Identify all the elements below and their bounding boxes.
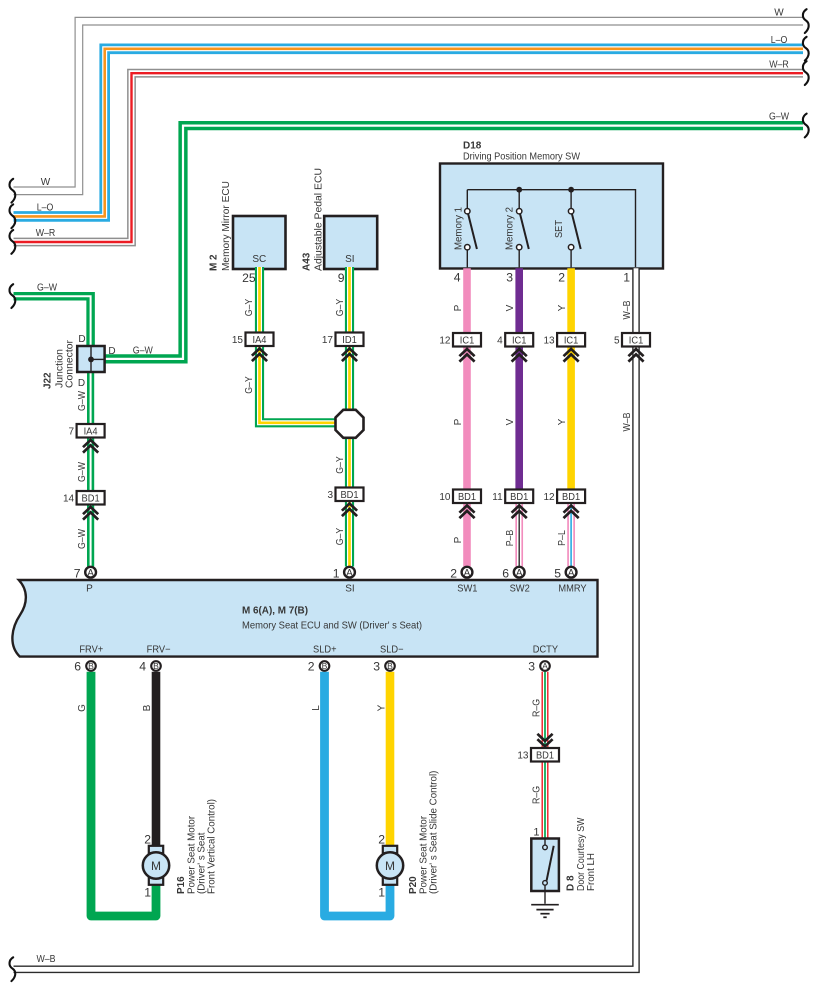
svg-text:2: 2 xyxy=(558,271,565,285)
svg-text:B: B xyxy=(88,661,94,671)
svg-text:14: 14 xyxy=(63,493,75,504)
svg-text:4: 4 xyxy=(454,271,461,285)
svg-text:FRV+: FRV+ xyxy=(79,645,103,656)
svg-text:G–Y: G–Y xyxy=(335,527,346,545)
svg-text:BD1: BD1 xyxy=(82,493,101,504)
svg-text:9: 9 xyxy=(338,271,345,285)
svg-text:2: 2 xyxy=(308,660,315,674)
svg-text:L–O: L–O xyxy=(37,203,54,214)
svg-text:ID1: ID1 xyxy=(342,335,357,346)
svg-text:BD1: BD1 xyxy=(510,492,529,503)
svg-text:M 2: M 2 xyxy=(208,254,220,271)
svg-text:2: 2 xyxy=(450,566,457,580)
svg-text:10: 10 xyxy=(439,492,451,503)
svg-text:25: 25 xyxy=(242,271,256,285)
svg-text:P: P xyxy=(453,304,464,311)
svg-text:1: 1 xyxy=(533,827,539,839)
svg-text:DCTY: DCTY xyxy=(533,645,559,656)
svg-text:A43: A43 xyxy=(301,253,313,271)
svg-text:G–W: G–W xyxy=(37,282,57,293)
svg-text:1: 1 xyxy=(333,566,340,580)
svg-text:J22: J22 xyxy=(41,372,53,389)
svg-text:MMRY: MMRY xyxy=(558,584,587,595)
svg-text:P: P xyxy=(453,418,464,425)
svg-text:BD1: BD1 xyxy=(458,492,477,503)
svg-text:Memory 2: Memory 2 xyxy=(505,207,516,250)
svg-text:Front LH: Front LH xyxy=(585,853,597,891)
svg-text:M 6(A), M 7(B): M 6(A), M 7(B) xyxy=(242,605,308,617)
svg-text:Driving Position Memory SW: Driving Position Memory SW xyxy=(463,151,580,163)
svg-text:IA4: IA4 xyxy=(253,335,267,346)
svg-text:5: 5 xyxy=(614,335,620,346)
svg-text:A: A xyxy=(568,568,575,579)
svg-text:IC1: IC1 xyxy=(512,335,527,346)
svg-text:V: V xyxy=(505,418,516,425)
svg-text:P–L: P–L xyxy=(557,530,568,546)
svg-text:G–Y: G–Y xyxy=(335,298,346,316)
svg-text:15: 15 xyxy=(232,335,244,346)
svg-text:SLD+: SLD+ xyxy=(313,645,337,656)
svg-text:G–Y: G–Y xyxy=(244,298,255,316)
svg-text:A: A xyxy=(516,568,523,579)
svg-text:SC: SC xyxy=(252,254,266,265)
svg-text:Y: Y xyxy=(376,704,387,711)
svg-text:D: D xyxy=(78,334,85,345)
svg-text:W–R: W–R xyxy=(769,59,789,70)
svg-text:Y: Y xyxy=(557,304,568,311)
svg-text:3: 3 xyxy=(373,660,380,674)
svg-text:W–B: W–B xyxy=(622,300,633,319)
svg-text:BD1: BD1 xyxy=(562,492,581,503)
svg-text:W–B: W–B xyxy=(622,412,633,431)
svg-text:A: A xyxy=(346,568,353,579)
svg-text:P: P xyxy=(86,584,93,595)
svg-text:7: 7 xyxy=(74,566,81,580)
svg-text:Connector: Connector xyxy=(64,340,76,388)
svg-text:W: W xyxy=(774,7,784,18)
svg-text:R–G: R–G xyxy=(532,699,543,717)
svg-text:IC1: IC1 xyxy=(564,335,579,346)
svg-text:4: 4 xyxy=(497,335,503,346)
svg-text:Memory Seat ECU and SW (Driver: Memory Seat ECU and SW (Driver' s Seat) xyxy=(242,620,422,632)
svg-text:3: 3 xyxy=(327,490,333,501)
svg-text:Front Vertical Control): Front Vertical Control) xyxy=(206,799,218,894)
svg-text:3: 3 xyxy=(528,660,535,674)
svg-text:FRV−: FRV− xyxy=(147,645,171,656)
svg-text:IC1: IC1 xyxy=(460,335,475,346)
svg-text:G–Y: G–Y xyxy=(335,456,346,474)
svg-text:2: 2 xyxy=(144,832,151,846)
svg-text:BD1: BD1 xyxy=(340,490,359,501)
svg-text:1: 1 xyxy=(623,271,630,285)
svg-text:D: D xyxy=(108,346,115,357)
svg-text:B: B xyxy=(153,661,159,671)
svg-text:1: 1 xyxy=(144,885,151,899)
svg-text:W–R: W–R xyxy=(36,228,56,239)
svg-text:G–W: G–W xyxy=(77,391,88,411)
svg-text:M: M xyxy=(151,859,161,873)
svg-text:SLD−: SLD− xyxy=(380,645,404,656)
svg-text:SW1: SW1 xyxy=(457,584,478,595)
svg-text:Memory 1: Memory 1 xyxy=(454,207,465,250)
svg-text:5: 5 xyxy=(554,566,561,580)
svg-text:Memory Mirror ECU: Memory Mirror ECU xyxy=(220,181,232,271)
svg-text:3: 3 xyxy=(506,271,513,285)
svg-text:13: 13 xyxy=(543,335,555,346)
svg-text:B: B xyxy=(387,661,393,671)
svg-text:L–O: L–O xyxy=(771,35,788,46)
svg-text:R–G: R–G xyxy=(532,786,543,804)
svg-text:1: 1 xyxy=(378,885,385,899)
svg-text:12: 12 xyxy=(543,492,555,503)
svg-text:L: L xyxy=(311,705,322,711)
svg-text:SW2: SW2 xyxy=(510,584,531,595)
svg-text:V: V xyxy=(505,304,516,311)
svg-text:D: D xyxy=(78,378,85,389)
svg-text:Adjustable Pedal ECU: Adjustable Pedal ECU xyxy=(313,168,325,271)
svg-text:13: 13 xyxy=(517,750,529,761)
svg-text:SI: SI xyxy=(345,254,354,265)
svg-text:G–W: G–W xyxy=(133,346,153,357)
svg-text:2: 2 xyxy=(378,832,385,846)
svg-text:G–W: G–W xyxy=(77,462,88,482)
svg-text:BD1: BD1 xyxy=(536,750,555,761)
svg-text:B: B xyxy=(142,704,153,711)
svg-text:P–B: P–B xyxy=(505,529,516,546)
svg-text:SET: SET xyxy=(554,220,565,238)
svg-text:4: 4 xyxy=(139,660,146,674)
svg-text:P: P xyxy=(453,536,464,543)
svg-text:G–W: G–W xyxy=(77,529,88,549)
svg-text:IC1: IC1 xyxy=(629,335,644,346)
svg-text:6: 6 xyxy=(74,660,81,674)
svg-text:W–B: W–B xyxy=(36,954,55,965)
svg-text:M: M xyxy=(385,859,395,873)
svg-text:G–W: G–W xyxy=(769,112,789,123)
svg-text:A: A xyxy=(542,661,548,671)
svg-text:12: 12 xyxy=(439,335,451,346)
svg-text:IA4: IA4 xyxy=(84,426,98,437)
svg-text:W: W xyxy=(41,177,51,188)
svg-text:Y: Y xyxy=(557,418,568,425)
svg-text:11: 11 xyxy=(492,492,503,503)
svg-text:A: A xyxy=(87,568,94,579)
svg-text:A: A xyxy=(464,568,471,579)
svg-text:17: 17 xyxy=(322,335,334,346)
svg-text:(Driver' s Seat Slide Control): (Driver' s Seat Slide Control) xyxy=(428,771,440,894)
svg-text:G–Y: G–Y xyxy=(244,376,255,394)
svg-text:G: G xyxy=(77,704,88,712)
svg-text:7: 7 xyxy=(69,426,75,437)
svg-text:6: 6 xyxy=(502,566,509,580)
svg-text:SI: SI xyxy=(345,584,354,595)
svg-text:B: B xyxy=(322,661,328,671)
